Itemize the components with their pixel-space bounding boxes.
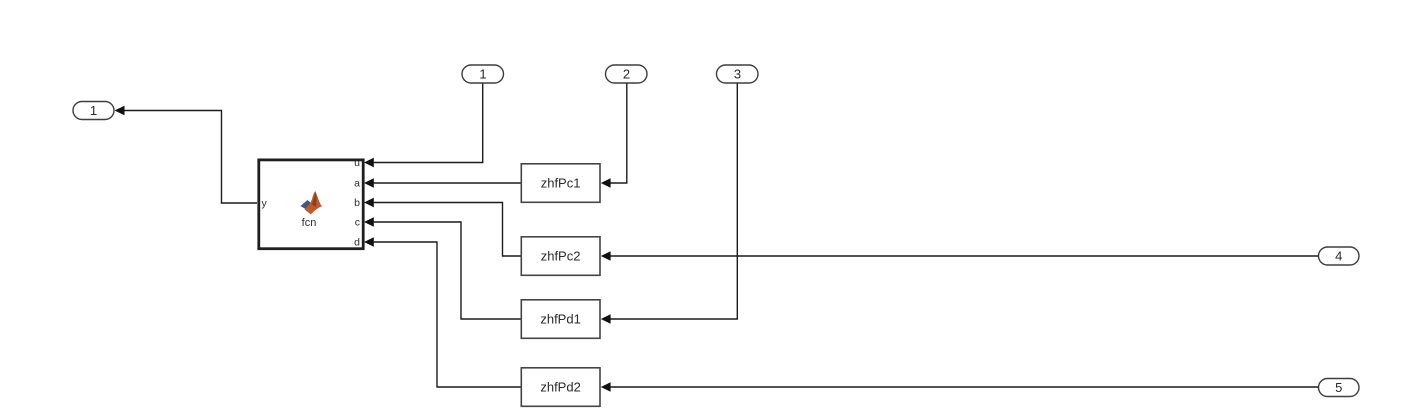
svg-text:4: 4	[1335, 249, 1342, 264]
arrowhead into zhfPc2	[601, 251, 611, 260]
inport In3 oval	[717, 65, 759, 83]
svg-text:fcn: fcn	[302, 217, 317, 229]
arrowhead into zhfPd1	[601, 314, 611, 323]
svg-text:zhfPd2: zhfPd2	[540, 380, 580, 395]
wire In1 to fcn u	[373, 84, 483, 163]
svg-text:1: 1	[479, 67, 486, 82]
svg-text:a: a	[354, 178, 360, 190]
wire In5 to zhfPd2 input	[610, 386, 1319, 388]
inport In2 oval	[606, 65, 648, 83]
inport In4 oval	[1319, 247, 1360, 265]
svg-text:3: 3	[734, 67, 741, 82]
arrowhead into fcn d	[364, 237, 374, 246]
arrowhead into fcn b	[364, 198, 374, 207]
inport In5 oval	[1319, 379, 1360, 397]
MATLAB Function block U:fcn	[259, 157, 363, 249]
wire zhfPc1 out to fcn a	[373, 182, 521, 184]
arrowhead into zhfPc1	[601, 178, 611, 187]
arrowhead into fcn c	[364, 217, 374, 226]
wire zhfPd1 out to fcn c	[373, 222, 521, 319]
arrowhead into Out1	[115, 106, 125, 116]
block zhfPd2	[521, 368, 600, 407]
svg-text:zhfPc2: zhfPc2	[541, 249, 581, 264]
wire y output: fcn y to Out1	[122, 111, 257, 204]
svg-text:2: 2	[623, 67, 630, 82]
svg-text:zhfPd1: zhfPd1	[540, 312, 580, 327]
svg-text:b: b	[354, 197, 360, 209]
wire In4 to zhfPc2 input	[610, 255, 1319, 257]
wire In3 to zhfPd1 input	[610, 84, 737, 320]
svg-text:u: u	[354, 157, 360, 169]
wire zhfPc2 out to fcn b	[373, 203, 521, 257]
svg-text:y: y	[262, 198, 268, 210]
arrowhead into fcn a	[364, 178, 374, 187]
svg-text:zhfPc1: zhfPc1	[541, 176, 581, 191]
block zhfPc2	[521, 237, 600, 275]
wire In2 to zhfPc1 input	[610, 84, 627, 184]
svg-text:d: d	[354, 237, 360, 249]
svg-text:c: c	[355, 217, 360, 229]
svg-text:5: 5	[1335, 380, 1342, 395]
outport Out1 oval	[73, 102, 114, 120]
arrowhead into zhfPd2	[601, 382, 611, 391]
arrowhead into fcn u	[364, 158, 374, 167]
MATLAB membrane logo	[301, 191, 323, 214]
inport In1 oval	[462, 65, 504, 83]
svg-text:1: 1	[90, 103, 97, 118]
wire zhfPd2 out to fcn d	[373, 242, 521, 387]
block zhfPc1	[521, 164, 600, 203]
block zhfPd1	[521, 300, 600, 339]
